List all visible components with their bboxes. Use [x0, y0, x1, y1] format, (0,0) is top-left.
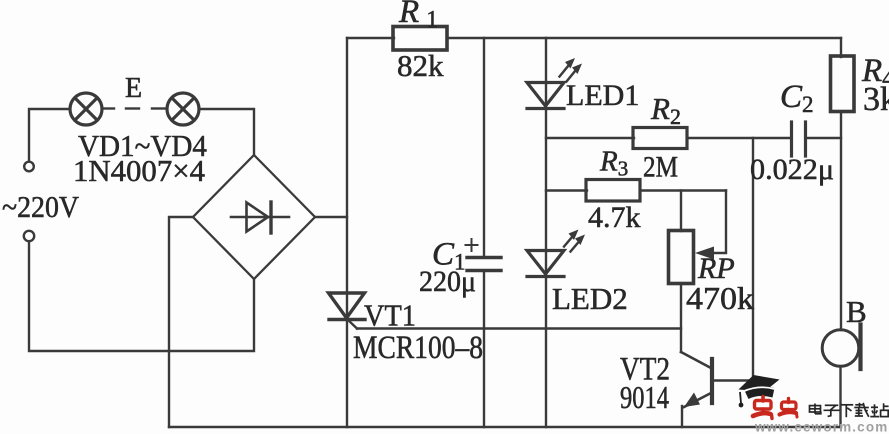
bridge inner diode	[231, 202, 289, 233]
resistor R3	[586, 180, 640, 202]
svg-text:9014: 9014	[620, 379, 669, 415]
main rail x=347 upper (DC+ to R1)	[346, 38, 348, 319]
transistor VT2 emitter diagonal	[684, 393, 711, 407]
svg-text:0.022μ: 0.022μ	[750, 153, 834, 186]
wire C2 right to R4 rail	[806, 137, 842, 139]
svg-text:470k: 470k	[686, 280, 754, 316]
wire C1 rail upper	[483, 38, 485, 256]
potentiometer RP body	[669, 231, 694, 284]
RP wiper arrowhead	[695, 247, 714, 260]
VT2 emitter arrowhead	[684, 393, 700, 408]
wire dashed between lamps (node E)	[103, 107, 165, 109]
svg-text:1N4007×4: 1N4007×4	[73, 153, 205, 188]
VT2 emitter stem to ground	[681, 406, 683, 427]
ground bottom rail	[169, 426, 841, 428]
wire R4 bottom to buzzer	[840, 112, 842, 331]
wire T1 stem up	[29, 109, 69, 161]
LED1 light arrows	[560, 58, 583, 82]
svg-text:B: B	[846, 294, 867, 329]
watermark bug character 1	[753, 397, 772, 419]
svg-text:E: E	[125, 73, 142, 104]
svg-text:LED2: LED2	[552, 281, 628, 316]
wire R3 right to wiper corner	[640, 189, 726, 191]
capacitor C1	[467, 258, 501, 271]
wire R1 left lead	[347, 37, 394, 39]
transistor VT2 base bar	[710, 359, 714, 403]
LED1 rail upper	[545, 38, 547, 106]
wire R4 top lead	[840, 38, 842, 57]
lamp E1	[70, 93, 102, 125]
resistor R4	[831, 56, 855, 112]
bridge rectifier VD1-VD4 diamond	[193, 155, 315, 279]
LED1/LED2 rail middle	[545, 109, 547, 275]
wire base rail from R2-C2 node down	[714, 138, 753, 381]
svg-text:82k: 82k	[397, 48, 444, 83]
wire R2 right to C2	[687, 137, 791, 139]
svg-text:220μ: 220μ	[419, 265, 476, 298]
main rail x=347 lower (VT1 cathode to ground)	[346, 319, 348, 427]
watermark graduation cap	[739, 375, 780, 407]
svg-text:4.7k: 4.7k	[588, 201, 641, 234]
buzzer bottom lead	[839, 367, 841, 428]
LED2 light arrows	[564, 230, 585, 252]
wire bridge left vertex to ground rail	[169, 217, 193, 427]
resistor R1	[393, 27, 447, 51]
resistor R2	[633, 128, 687, 149]
wire bridge right vertex to main rail	[315, 216, 347, 218]
terminal T2	[24, 231, 34, 241]
char zhan	[874, 404, 876, 416]
wire C1 rail lower	[483, 271, 485, 427]
wire R3 left lead	[546, 189, 587, 191]
svg-text:MCR100–8: MCR100–8	[353, 330, 483, 366]
svg-text:www.eeworm.com: www.eeworm.com	[754, 420, 888, 434]
VT1 gate lead	[348, 320, 358, 329]
thyristor VT1	[329, 293, 366, 320]
C1 polarity plus	[466, 239, 478, 251]
svg-text:2M: 2M	[643, 151, 678, 184]
LED LED2	[527, 251, 564, 277]
char dian	[814, 404, 816, 414]
RP wiper lead	[712, 191, 726, 254]
watermark text dian zi xia zai zhan	[810, 403, 889, 417]
watermark bug character 2	[780, 399, 798, 418]
char xia	[841, 404, 853, 406]
char zi	[825, 404, 839, 406]
transistor VT2 collector diagonal	[681, 352, 711, 368]
char zai	[859, 403, 861, 408]
lamp E2	[167, 93, 199, 125]
capacitor C2	[792, 122, 806, 156]
svg-text:LED1: LED1	[566, 79, 639, 112]
RP bottom lead / VT2 collector stem	[680, 284, 682, 353]
wire R2 left lead	[546, 137, 634, 139]
terminal T1	[24, 162, 34, 172]
buzzer B	[822, 330, 859, 367]
wire top rail	[447, 37, 841, 39]
LED2 rail lower to ground	[545, 277, 547, 428]
svg-text:~220V: ~220V	[2, 190, 79, 224]
svg-text:3k: 3k	[863, 81, 889, 118]
svg-text:VT1: VT1	[364, 298, 416, 333]
buzzer bar	[858, 325, 862, 370]
LED LED1	[527, 83, 564, 109]
wire T2 stem down to AC bottom	[29, 242, 254, 351]
wire lamp2 to bridge top	[199, 109, 254, 155]
potentiometer RP top lead	[680, 191, 682, 232]
wire gate to VT2 collector node	[357, 327, 681, 329]
